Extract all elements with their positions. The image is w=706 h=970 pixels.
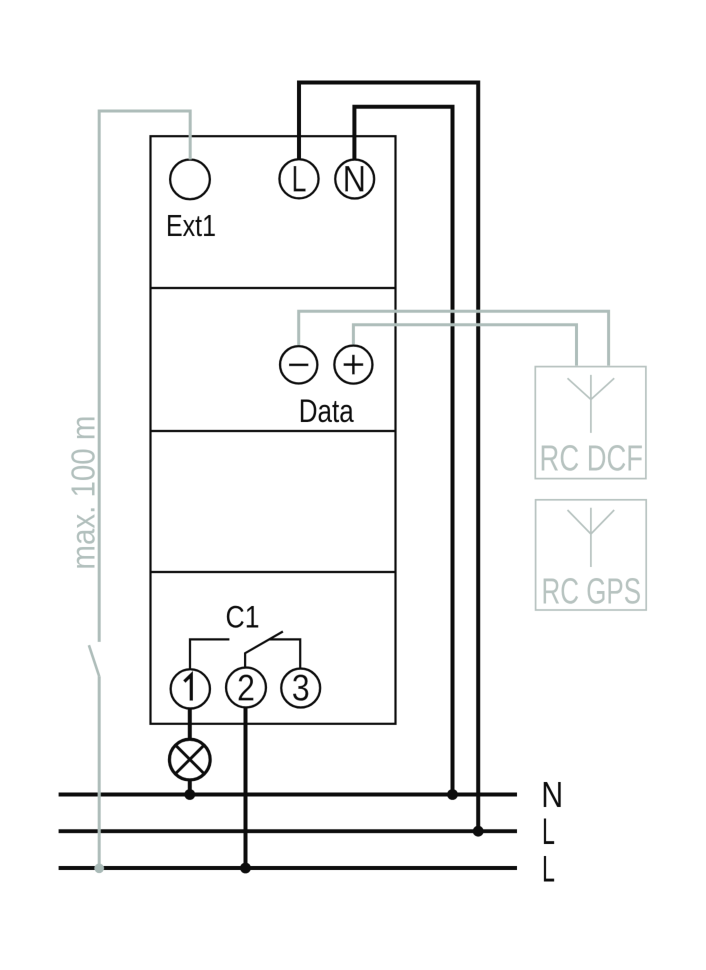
switch blade on gray wire (89, 645, 99, 676)
svg-text:L: L (542, 811, 555, 852)
svg-text:max. 100 m: max. 100 m (65, 416, 102, 570)
svg-text:Ext1: Ext1 (166, 208, 216, 243)
svg-text:RC DCF: RC DCF (540, 437, 644, 478)
terminal 3 (281, 668, 320, 709)
RC DCF receiver box (535, 367, 646, 479)
wire terminal 1 to lamp (188, 708, 192, 738)
terminal 2 (226, 667, 266, 708)
antenna RC GPS (568, 508, 615, 567)
svg-text:Data: Data (299, 393, 354, 429)
svg-text:N: N (541, 774, 563, 815)
section divider 1 (151, 287, 396, 289)
wire terminal N to N bus (354, 107, 452, 795)
gray wire lower segment to L bus (98, 676, 101, 868)
wire terminal L to L bus (299, 83, 478, 832)
section divider 3 (151, 571, 396, 573)
RC GPS receiver box (536, 500, 647, 610)
junction dot lamp on N bus (184, 789, 195, 800)
svg-text:L: L (542, 849, 555, 890)
device outline (151, 136, 396, 724)
terminal 1 (171, 669, 210, 708)
antenna RC DCF (568, 375, 615, 433)
terminal L (280, 158, 319, 199)
svg-text:3: 3 (292, 668, 310, 709)
relay contact C1: moving blade from terminal 2 (245, 632, 283, 668)
gray junction dot on L bus (94, 864, 104, 874)
lamp (170, 739, 211, 780)
wire terminal 2 to L bus (244, 707, 248, 868)
N bus line (59, 793, 517, 797)
gray wire from external switch to Ext1 (99, 111, 190, 642)
terminal N (335, 159, 374, 200)
relay contact C1: fixed contact of terminal 3 (270, 639, 301, 668)
junction dot terminal 2 on L bus (240, 863, 251, 874)
junction dot N bus (447, 789, 458, 800)
gray wire Data plus to RC DCF (353, 325, 576, 366)
junction dot L bus (473, 826, 484, 837)
relay contact C1: fixed contact of terminal 1 (190, 639, 229, 669)
terminal Ext1 (170, 160, 210, 200)
svg-text:RC GPS: RC GPS (542, 571, 642, 612)
svg-text:C1: C1 (226, 599, 260, 634)
terminal minus (280, 346, 317, 383)
section divider 2 (151, 430, 396, 432)
wire lamp to N bus (188, 780, 192, 794)
terminal plus (334, 346, 372, 384)
L bus line (59, 829, 517, 833)
svg-text:N: N (343, 159, 366, 200)
second L bus line (59, 866, 517, 870)
svg-text:2: 2 (237, 667, 255, 708)
svg-text:L: L (292, 158, 307, 199)
gray wire Data minus to RC DCF (299, 311, 609, 365)
